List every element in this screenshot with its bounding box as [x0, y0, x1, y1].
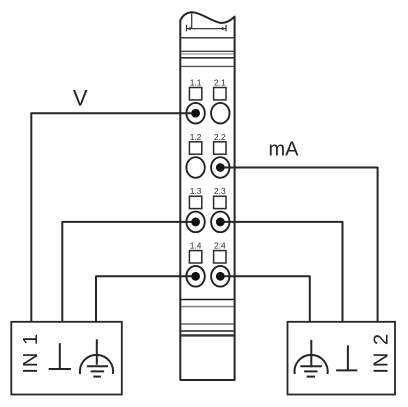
terminal circle 1.1 — [186, 103, 204, 124]
svg-text:2.1: 2.1 — [214, 78, 226, 88]
terminal dot 1.4 — [191, 272, 200, 281]
protective earth symbol (IN1) — [80, 339, 113, 376]
terminal module body U1 — [180, 12, 234, 380]
wire 1.3 to IN1 box — [62, 222, 195, 322]
LED square 2.2 — [214, 142, 226, 154]
terminal circle 2.3 — [211, 212, 229, 233]
terminal circle 1.3 — [186, 212, 204, 233]
LED square 1.4 — [189, 251, 201, 263]
terminal dot 1.3 (top) — [191, 218, 200, 227]
LED square 2.4 — [214, 251, 226, 263]
terminal dot 2.2 — [216, 163, 225, 172]
module top horizontal line 3 — [181, 53, 233, 55]
device box IN2 — [288, 322, 396, 395]
terminal dot 2.4 (top) — [216, 272, 225, 281]
terminal dot 2.3 — [216, 218, 225, 227]
svg-text:IN 1: IN 1 — [20, 333, 42, 374]
dimension left arrowhead — [187, 27, 191, 30]
LED square 1.2 — [189, 142, 201, 154]
terminal circle 1.2 — [186, 157, 204, 178]
svg-text:2.3: 2.3 — [214, 186, 226, 196]
wire V: terminal 1.1 to IN1 box — [31, 113, 195, 321]
terminal circle 2.4 — [211, 266, 229, 287]
terminal circle 1.4 — [186, 266, 204, 287]
terminal dot 2.4 — [216, 272, 225, 281]
terminal circle 2.2 — [211, 157, 229, 178]
terminal dot 1.3 — [191, 218, 200, 227]
dimension left tick — [186, 25, 188, 32]
device box IN1 — [11, 322, 122, 395]
module bottom horizontal line 5 (thick) — [181, 334, 233, 336]
LED square 2.1 — [214, 88, 226, 100]
terminal dot 1.4 (top) — [191, 272, 200, 281]
LED square 1.3 — [189, 196, 201, 208]
module top horizontal line 5 — [181, 65, 233, 67]
top dimension mark vertical line — [191, 13, 193, 28]
terminal dot 2.3 (top) — [216, 218, 225, 227]
terminal dot 1.1 (top) — [191, 109, 200, 118]
LED square 2.3 — [214, 196, 226, 208]
terminal circle 2.1 — [211, 103, 229, 124]
wire 2.4 to IN2 box — [220, 276, 309, 321]
wire mA: terminal 2.2 to IN2 box — [220, 168, 377, 322]
dimension right tick — [225, 25, 227, 32]
module top horizontal line 2 — [181, 50, 233, 52]
svg-text:2.2: 2.2 — [214, 132, 226, 142]
module bottom horizontal line 4 — [181, 330, 233, 332]
functional earth symbol (IN2) — [336, 345, 357, 370]
module bottom horizontal line 3 — [181, 323, 233, 325]
svg-text:IN 2: IN 2 — [371, 333, 393, 374]
top dimension line — [187, 28, 227, 30]
protective earth symbol (IN2) — [294, 340, 327, 377]
terminal dot 2.2 (top) — [216, 163, 225, 172]
svg-text:V: V — [73, 86, 88, 111]
wire 1.4 to IN1 box — [96, 276, 196, 321]
svg-text:1.4: 1.4 — [190, 241, 202, 251]
svg-text:2.4: 2.4 — [214, 241, 226, 251]
module bottom horizontal line 2 — [181, 306, 233, 308]
svg-text:1.3: 1.3 — [190, 186, 202, 196]
terminal dot 1.1 — [191, 109, 200, 118]
functional earth symbol (IN1) — [49, 343, 71, 369]
module top horizontal line 4 — [181, 57, 233, 59]
wire 2.3 to IN2 box — [220, 222, 342, 322]
module bottom horizontal line 1 — [181, 299, 233, 301]
svg-text:mA: mA — [269, 138, 300, 160]
LED square 1.1 — [189, 88, 201, 100]
dimension right arrowhead — [222, 27, 226, 30]
module top horizontal line 1 — [181, 37, 233, 39]
svg-text:1.2: 1.2 — [190, 132, 202, 142]
svg-text:1.1: 1.1 — [190, 78, 202, 88]
